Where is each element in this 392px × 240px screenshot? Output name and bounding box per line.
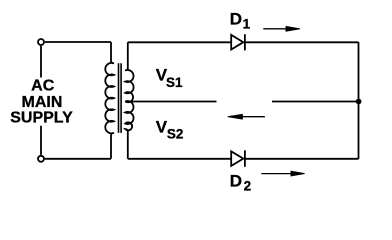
svg-text:2: 2 [244,179,252,194]
svg-text:1: 1 [243,16,251,31]
svg-text:V: V [156,117,168,136]
svg-text:SUPPLY: SUPPLY [10,110,73,127]
svg-text:MAIN: MAIN [22,94,63,111]
svg-text:D: D [230,9,242,28]
svg-text:D: D [230,171,242,190]
svg-text:S2: S2 [167,127,184,142]
svg-text:AC: AC [31,77,55,94]
svg-text:S1: S1 [166,75,183,90]
